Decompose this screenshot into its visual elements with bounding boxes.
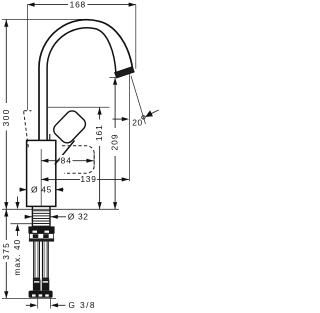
- dimension 168 line: [27, 4, 135, 6]
- arrow left of dia45: [20, 188, 27, 192]
- arrow top of 375: [4, 209, 8, 216]
- dimension 139 line: [41, 178, 129, 180]
- svg-text:20: 20: [132, 118, 143, 128]
- hose end reference line: [2, 297, 56, 299]
- arrow left of G3/8: [30, 303, 37, 307]
- connector flange: [29, 239, 54, 242]
- extension line right of 168: [135, 5, 137, 69]
- bar white squares: [32, 294, 36, 296]
- threaded shank: [32, 207, 50, 227]
- dashed handle swing line left: [24, 111, 32, 148]
- outlet 20deg slanted line: [131, 76, 146, 124]
- arrow right of G3/8: [51, 303, 58, 307]
- svg-text:84: 84: [61, 155, 72, 165]
- angle arrow right: [146, 110, 159, 116]
- nut white notches: [33, 231, 38, 233]
- hose fitting 2: [42, 280, 50, 291]
- handle lever edge: [55, 141, 75, 165]
- extension line outlet bottom: [109, 76, 117, 78]
- svg-text:Ø 32: Ø 32: [68, 212, 89, 222]
- hose 2: [43, 242, 49, 278]
- arrow left of 84: [41, 159, 48, 163]
- dimension 161 line: [99, 107, 101, 209]
- hose 1: [34, 242, 40, 278]
- label 84: [60, 155, 73, 165]
- handle paddle: [51, 108, 88, 145]
- dimension 300 line: [5, 20, 7, 210]
- arrow top of 161: [98, 107, 102, 114]
- extension line handle top: [48, 106, 110, 108]
- handle tip extension line: [93, 151, 95, 169]
- arrow bottom of 161: [98, 202, 102, 209]
- svg-text:168: 168: [70, 0, 86, 10]
- arrow top of 209: [113, 78, 117, 85]
- arrow bottom of 209: [113, 202, 117, 209]
- counter reference line: [2, 208, 119, 210]
- handle neck line: [49, 134, 51, 140]
- shank thread stripes: [32, 211, 50, 226]
- bottom bar: [29, 291, 53, 298]
- arrow left of dia32: [25, 215, 32, 219]
- angle arrow left: [113, 118, 125, 120]
- svg-text:300: 300: [1, 108, 11, 126]
- mounting nut: [28, 226, 54, 233]
- hose connector band: [29, 234, 53, 239]
- arrow right of 139: [122, 177, 129, 181]
- arrow right of dia32: [51, 215, 58, 219]
- dashed handle down position: [62, 146, 94, 174]
- hose collar 1: [33, 278, 40, 280]
- arrow right of 168: [129, 3, 136, 7]
- faucet body: [27, 140, 56, 206]
- spout inner contour: [47, 28, 116, 141]
- body centre extension line: [40, 149, 42, 206]
- extension line left of 168: [26, 5, 28, 111]
- arrow right of 84: [86, 159, 93, 163]
- dimension 209 line: [114, 78, 116, 210]
- hose fitting 1: [33, 280, 41, 291]
- outlet vertical reference line: [129, 74, 131, 182]
- dimension 375 line: [5, 209, 7, 298]
- spout outlet slab: [115, 67, 135, 78]
- dimension max.40 upper arrow: [17, 197, 19, 205]
- dimension G3/8: [26, 304, 66, 306]
- svg-text:Ø 45: Ø 45: [31, 184, 52, 194]
- deck bottom reference line: [11, 223, 32, 225]
- arrow bottom of 375: [4, 291, 8, 298]
- svg-text:max. 40: max. 40: [12, 239, 22, 276]
- svg-text:375: 375: [1, 242, 11, 260]
- arrow left of 168: [27, 3, 34, 7]
- arrow right of dia45: [56, 188, 63, 192]
- arrow top of 300: [4, 20, 8, 27]
- dimension max.40 lower arrow: [17, 229, 19, 236]
- arrow left of 139: [41, 177, 48, 181]
- dimension dia45: [21, 189, 64, 191]
- hose collar 2: [42, 278, 49, 280]
- svg-text:139: 139: [80, 174, 96, 184]
- top tangent extension line: [2, 18, 88, 20]
- spout outer contour: [39, 20, 133, 141]
- dimension 84 line: [41, 160, 93, 162]
- G3/8 extension lines: [37, 298, 39, 308]
- fitting white slots: [34, 281, 39, 282]
- svg-text:G 3/8: G 3/8: [68, 300, 95, 310]
- svg-text:161: 161: [94, 124, 104, 141]
- dimension dia32: [25, 216, 66, 218]
- arrow bottom of 300: [4, 202, 8, 209]
- svg-text:209: 209: [110, 134, 120, 151]
